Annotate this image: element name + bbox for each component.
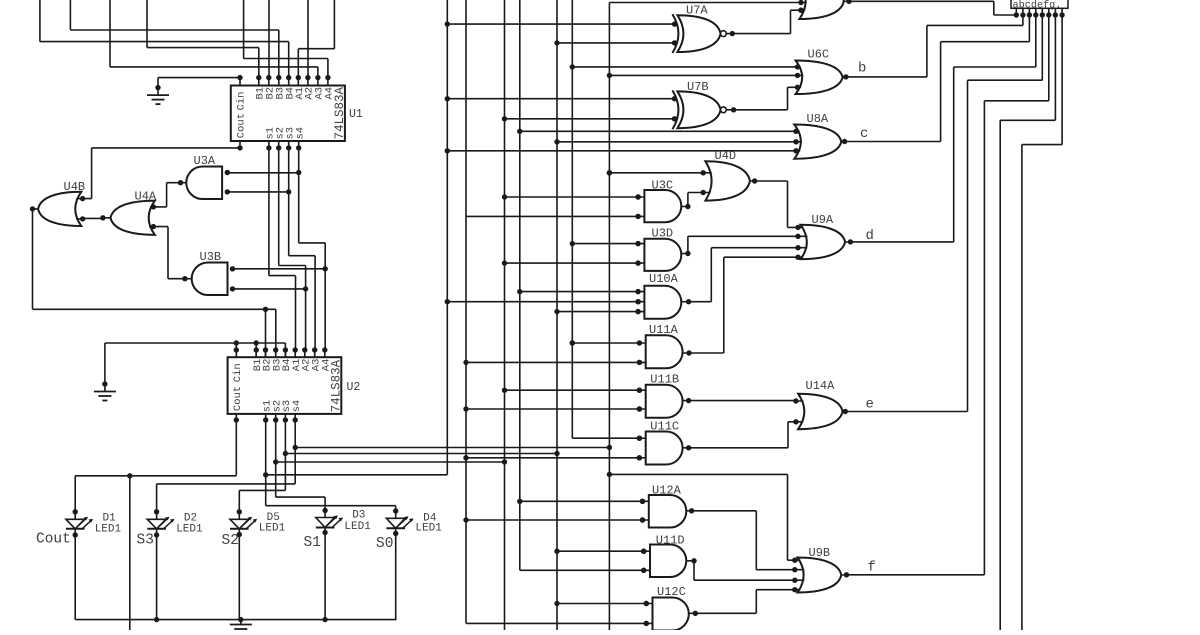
AND gate U12C xyxy=(644,585,698,631)
AND gate U3B xyxy=(182,250,235,295)
wire U1 s3 to U2 A3 xyxy=(286,148,315,350)
wire bus net2 x466 xyxy=(463,0,646,623)
svg-text:Cout: Cout xyxy=(235,113,247,138)
junction U11D input2 xyxy=(641,568,646,573)
OR gate U9B xyxy=(792,546,849,593)
wire A1 feed of U1 xyxy=(298,0,334,78)
AND gate U11C xyxy=(637,420,692,465)
svg-text:U9B: U9B xyxy=(809,546,831,560)
wire U3D input1 line xyxy=(572,241,641,246)
wire bus net3 x504 xyxy=(502,0,507,630)
OR gate U6C xyxy=(795,48,849,95)
IC U2 74LS83A 4-bit adder xyxy=(228,357,361,414)
wire bus net5 x557 xyxy=(554,0,559,630)
svg-text:LED1: LED1 xyxy=(344,521,371,533)
LED D1 Cout indicator xyxy=(36,509,122,547)
OR gate U8A xyxy=(794,112,847,159)
AND gate U11B xyxy=(637,373,692,418)
wire U11C output to U14A input2 xyxy=(689,422,796,448)
wire U3B input2 net xyxy=(233,288,306,290)
AND gate U3C xyxy=(635,179,690,223)
wire U7B input1 line xyxy=(447,96,677,101)
svg-text:U4A: U4A xyxy=(135,190,157,204)
AND gate U12A xyxy=(640,484,695,528)
svg-text:74LS83A: 74LS83A xyxy=(333,86,347,139)
svg-text:e: e xyxy=(866,397,874,413)
wire U2 s4 to LED D2 and bus xyxy=(157,420,613,512)
label output d xyxy=(866,228,874,244)
svg-text:U10A: U10A xyxy=(649,272,679,286)
wire U12A output to U9B input2 xyxy=(692,511,795,570)
wire U6A output a to connector pin a xyxy=(849,1,1016,15)
wire segment c from U8A to connector xyxy=(845,15,1030,142)
wire bus net7 to U4D input1 xyxy=(607,170,704,175)
U1 top pin stubs xyxy=(240,75,331,86)
XNOR gate U7B xyxy=(672,80,736,129)
wire U11C input2 line xyxy=(466,455,642,460)
IC U1 74LS83A 4-bit adder xyxy=(231,86,363,142)
wire junction drop at x130 xyxy=(129,476,131,630)
OR gate U4D xyxy=(701,149,758,201)
OR gate U14A xyxy=(793,379,848,429)
wire Cin of U1 to ground xyxy=(158,75,243,80)
wire U2 s1 to LED D4 and bus xyxy=(263,420,447,512)
U2 top pin dots xyxy=(234,347,328,357)
svg-text:U3C: U3C xyxy=(652,179,674,193)
svg-text:d: d xyxy=(866,228,874,244)
svg-text:U12A: U12A xyxy=(652,484,682,498)
LED D4 S0 indicator xyxy=(376,508,442,552)
ground symbol at U1 Cin xyxy=(147,78,169,105)
wire U4B output to U2 B2 B3 xyxy=(33,209,276,357)
wire U3D output to U9A input2 xyxy=(688,236,798,253)
junction U11A input1 xyxy=(0,0,1,1)
wire U12C output to U9B input4 xyxy=(695,590,795,614)
U1 bottom pin stubs xyxy=(237,141,301,151)
OR gate U6A output a (cut at top) xyxy=(798,0,851,19)
svg-text:S0: S0 xyxy=(376,536,393,552)
wire U10A input2 line xyxy=(447,299,641,304)
wire segment b from U6C to connector xyxy=(846,15,1023,77)
wire U3A output to U4A input1 xyxy=(153,183,180,207)
wire U10A input3 line xyxy=(557,309,641,314)
wire U11A input2 line xyxy=(466,360,642,365)
wire U6C input1 line xyxy=(572,64,800,69)
junction U12C input2 xyxy=(644,621,649,626)
svg-text:S1: S1 xyxy=(304,535,321,551)
svg-text:U11A: U11A xyxy=(649,323,679,337)
U2 bottom pin stubs xyxy=(234,414,298,423)
wire bus net6 x572 xyxy=(570,0,640,438)
wire U3C input1 line xyxy=(505,194,641,199)
svg-text:LED1: LED1 xyxy=(176,524,203,536)
wire bus net6 to U11A input1 xyxy=(570,340,640,345)
wire U1 s1 to U2 A1 xyxy=(269,148,296,350)
LED D3 S1 indicator xyxy=(304,508,372,551)
wire A4 feed of U1 xyxy=(244,0,328,78)
AND gate U3A xyxy=(178,154,230,199)
wire U1 Cout to U4B input1 xyxy=(83,148,240,199)
wire U3B input1 net xyxy=(233,268,326,270)
ground symbol at LED bus xyxy=(230,620,252,629)
LED D2 S3 indicator xyxy=(137,509,204,548)
wire U10A input1 line xyxy=(520,289,641,294)
AND gate U10A xyxy=(635,272,691,319)
wire U11D output to U9B input3 xyxy=(694,561,795,580)
svg-text:U11C: U11C xyxy=(650,420,679,434)
AND gate U11D xyxy=(641,534,697,578)
wire U3C output to U4D input2 xyxy=(688,193,703,207)
AND gate U3D xyxy=(635,227,690,271)
wire U3C input2 line xyxy=(466,214,641,219)
label output e xyxy=(866,397,874,413)
wire U7A output to U6A input2 xyxy=(732,8,803,34)
wire U8A input1 line xyxy=(520,129,799,134)
wire segment dp from connector xyxy=(1022,15,1062,630)
wire U3A input2 net s3 xyxy=(227,191,288,193)
svg-text:U14A: U14A xyxy=(806,379,836,393)
svg-text:U3D: U3D xyxy=(652,227,674,241)
wire U11A output to U9A input4 xyxy=(689,257,798,353)
wire U8A input2 line xyxy=(557,139,799,144)
svg-text:U1: U1 xyxy=(349,108,363,121)
wire U3D input2 line xyxy=(505,260,641,265)
AND gate U11A xyxy=(637,323,692,368)
wire U3B output to U4A input2 xyxy=(153,227,185,279)
svg-text:Cin: Cin xyxy=(232,363,244,382)
wire ground net to U2 Cin B1 B4 xyxy=(105,340,286,384)
wire A2 feed of U1 xyxy=(307,0,309,78)
label output f xyxy=(868,560,876,576)
LED D5 S2 indicator xyxy=(222,509,286,549)
wire U2 s3 to LED D5 and bus xyxy=(239,420,559,512)
label output b xyxy=(858,61,866,77)
wire U7A input2 line xyxy=(557,40,677,45)
svg-text:Cout: Cout xyxy=(36,532,71,548)
wire U12C input1 line xyxy=(557,601,649,606)
wire bus net4 x520 xyxy=(517,0,644,570)
svg-text:f: f xyxy=(868,560,876,576)
wire segment d from U9A to connector xyxy=(850,15,1035,242)
wire segment g from connector xyxy=(1000,15,1055,630)
svg-text:LED1: LED1 xyxy=(259,523,286,535)
svg-text:U2: U2 xyxy=(347,381,361,394)
wire U1 s2 to U2 A2 xyxy=(279,148,309,350)
svg-text:Cin: Cin xyxy=(235,92,247,111)
svg-text:74LS83A: 74LS83A xyxy=(330,359,344,412)
junction U11C input1 xyxy=(637,436,642,441)
wire U8A input3 line xyxy=(447,148,798,153)
wire U11B input1 line xyxy=(505,388,643,393)
svg-text:U4B: U4B xyxy=(64,180,86,194)
svg-text:U8A: U8A xyxy=(807,112,829,126)
wire LED cathode bus to ground xyxy=(75,533,396,623)
wire B3 feed of U1 xyxy=(70,0,278,78)
svg-text:U9A: U9A xyxy=(812,213,834,227)
svg-text:c: c xyxy=(860,126,868,142)
wire U1 s4 to U2 A4 xyxy=(296,148,328,350)
svg-text:S3: S3 xyxy=(137,533,154,549)
ground symbol at U2 Cin xyxy=(94,381,116,400)
svg-text:LED1: LED1 xyxy=(95,524,122,536)
OR gate U4B xyxy=(30,180,86,226)
wire U3A input1 net s4 xyxy=(227,172,298,174)
wire B1 feed of U1 xyxy=(147,0,259,78)
7-segment connector abcdefg xyxy=(1011,0,1068,18)
svg-text:Cout: Cout xyxy=(232,386,244,411)
wire bus to U9B input1 xyxy=(609,474,794,560)
XNOR gate U7A xyxy=(672,4,735,54)
svg-text:U6C: U6C xyxy=(808,48,830,62)
wire U6C input2 line xyxy=(609,73,800,78)
svg-text:abcdefg.: abcdefg. xyxy=(1013,0,1062,11)
svg-text:U3B: U3B xyxy=(200,250,222,264)
svg-text:U11D: U11D xyxy=(656,534,685,548)
svg-text:U12C: U12C xyxy=(657,585,686,599)
svg-text:U4D: U4D xyxy=(715,149,737,163)
wire U11B output to U14A input1 xyxy=(689,400,796,402)
wire B2 feed of U1 xyxy=(268,0,270,78)
wire U11D input1 line xyxy=(557,549,646,554)
wire bus net7 x609 xyxy=(607,0,804,630)
svg-text:S2: S2 xyxy=(222,533,239,549)
wire U4D output to U9A input1 xyxy=(755,181,798,227)
wire U10A output to U9A input3 xyxy=(689,248,798,302)
svg-text:U7B: U7B xyxy=(687,80,709,94)
svg-text:b: b xyxy=(858,61,866,77)
wire U2 s2 to LED D3 and bus xyxy=(273,420,507,512)
OR gate U9A xyxy=(795,213,853,260)
svg-text:D3: D3 xyxy=(352,510,365,522)
svg-text:LED1: LED1 xyxy=(415,523,442,535)
wire U12A input2 line xyxy=(466,517,645,522)
wire A3 feed of U1 xyxy=(110,0,318,78)
svg-text:U7A: U7A xyxy=(686,4,708,18)
wire U4A output to U4B input2 xyxy=(83,217,103,219)
svg-text:s4: s4 xyxy=(291,400,303,413)
wire U7A input1 line xyxy=(447,21,677,26)
wire U2 Cout to LED D1 xyxy=(75,420,236,512)
label output c xyxy=(860,126,868,142)
wire U7B input2 line xyxy=(505,116,678,121)
svg-text:U11B: U11B xyxy=(650,373,679,387)
svg-text:U3A: U3A xyxy=(194,154,216,168)
wire U11B input2 line xyxy=(466,406,642,411)
wire bus net1 x447 xyxy=(445,0,450,475)
wire U12A input1 line xyxy=(520,499,645,504)
OR gate U4A xyxy=(100,190,157,235)
wire segment e from U14A to connector xyxy=(845,15,1042,412)
wire B4 feed of U1 xyxy=(40,0,289,78)
svg-text:s4: s4 xyxy=(295,127,307,140)
wire segment f from U9B to connector xyxy=(847,15,1049,575)
wire U7B output to U6C input3 xyxy=(734,87,798,110)
